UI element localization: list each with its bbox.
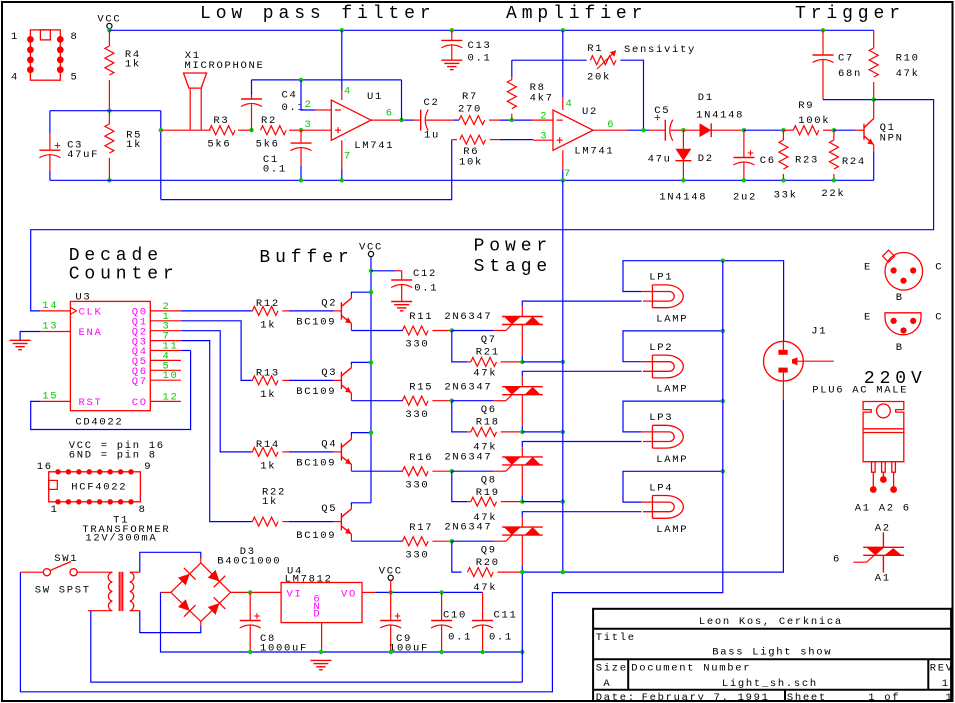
- svg-text:Bass Light show: Bass Light show: [712, 646, 832, 658]
- svg-text:Q3: Q3: [321, 367, 337, 379]
- svg-text:68n: 68n: [838, 68, 862, 80]
- svg-text:1k: 1k: [260, 460, 276, 472]
- wire gate to triac Q6: [452, 400, 494, 402]
- junction regulator gnd on ground row: [319, 650, 323, 654]
- svg-text:2: 2: [540, 111, 548, 123]
- junction R18 triac MT1: [520, 430, 524, 434]
- switch SW1 SPST: [43, 569, 50, 576]
- svg-text:6: 6: [607, 119, 615, 131]
- svg-text:CLK: CLK: [79, 307, 103, 319]
- svg-text:0.1: 0.1: [263, 164, 287, 176]
- wire J1 bottom to mains row: [782, 381, 784, 400]
- wire Q1 to R13: [181, 321, 252, 381]
- junction Q1 collector node: [872, 97, 876, 101]
- svg-text:BC109: BC109: [296, 386, 336, 398]
- connector J1 plug: [764, 341, 804, 381]
- svg-text:C6: C6: [760, 155, 776, 167]
- IC U3 CD4022 box: [70, 301, 150, 410]
- svg-text:C5: C5: [654, 105, 670, 117]
- svg-text:Document Number: Document Number: [631, 663, 751, 675]
- svg-text:U3: U3: [75, 292, 91, 304]
- resistor R4: [108, 30, 110, 46]
- svg-text:220V: 220V: [864, 369, 927, 389]
- resistor R5: [108, 111, 110, 124]
- svg-text:3: 3: [305, 119, 313, 131]
- resistor R23: [782, 130, 784, 140]
- resistor R9: [783, 129, 793, 131]
- svg-text:6: 6: [833, 553, 841, 565]
- capacitor C13: [450, 28, 454, 32]
- wire U2 pin4: [562, 30, 564, 97]
- wire Q4 emitter: [350, 464, 352, 471]
- svg-text:2N6347: 2N6347: [444, 381, 492, 393]
- junction C10 top: [439, 590, 443, 594]
- svg-text:R2: R2: [261, 115, 277, 127]
- junction C5-D1-D2 node: [681, 128, 685, 132]
- junction gate node Q8: [450, 469, 454, 473]
- svg-text:1k: 1k: [260, 319, 276, 331]
- svg-text:Q8: Q8: [481, 474, 497, 486]
- junction VCC column Q3: [369, 360, 373, 364]
- svg-text:Sheet: Sheet: [787, 692, 827, 703]
- svg-text:1: 1: [946, 692, 954, 703]
- junction gnd column R20: [561, 570, 565, 574]
- svg-text:6: 6: [386, 108, 394, 120]
- svg-text:LAMP: LAMP: [656, 524, 688, 536]
- svg-text:U1: U1: [367, 91, 383, 103]
- svg-text:MICROPHONE: MICROPHONE: [185, 60, 265, 72]
- wire U1 pin2 drop: [301, 80, 316, 110]
- svg-text:Power: Power: [474, 237, 553, 257]
- svg-text:C: C: [935, 312, 943, 324]
- svg-text:February 7. 1991: February 7. 1991: [642, 692, 770, 703]
- regulator U4 LM7812: [281, 583, 362, 623]
- junction R9-R24 node: [832, 128, 836, 132]
- svg-text:C10: C10: [443, 610, 467, 622]
- wire Q3 collector to VCC: [350, 364, 352, 367]
- svg-text:330: 330: [405, 549, 429, 561]
- svg-text:Title: Title: [596, 632, 636, 644]
- svg-text:LAMP: LAMP: [656, 454, 688, 466]
- resistor R7: [459, 116, 485, 125]
- DIP8 package outline top-left: [30, 30, 60, 80]
- ground symbol PSU: [310, 660, 331, 669]
- junction R8 bottom on pin2 wire: [510, 118, 514, 122]
- junction gnd column R18: [561, 430, 565, 434]
- resistor R12: [252, 310, 253, 312]
- svg-text:R7: R7: [462, 91, 478, 103]
- svg-text:C13: C13: [468, 40, 492, 52]
- junction U1 pin4 on VCC rail: [340, 28, 344, 32]
- resistor R13: [252, 379, 253, 381]
- svg-text:33k: 33k: [774, 189, 798, 201]
- junction U1 output feedback: [399, 118, 403, 122]
- wire R20 row to gnd column: [522, 571, 563, 573]
- svg-text:12V/300mA: 12V/300mA: [85, 532, 157, 544]
- wire U2 output: [593, 129, 627, 131]
- svg-text:HCF4022: HCF4022: [71, 481, 127, 493]
- triac Q6 2N6347: [502, 387, 543, 395]
- svg-text:CD4022: CD4022: [75, 417, 123, 429]
- svg-text:1N4148: 1N4148: [659, 191, 707, 203]
- triac Q8 2N6347: [502, 457, 543, 465]
- svg-text:LP3: LP3: [649, 412, 673, 424]
- wire R19 row to gnd column: [522, 501, 563, 503]
- svg-text:2N6347: 2N6347: [444, 452, 492, 464]
- junction D1-C6 node: [742, 128, 746, 132]
- svg-text:1N4148: 1N4148: [696, 110, 744, 122]
- ground symbol at ENA: [10, 340, 31, 349]
- wire triac Q6 MT1: [521, 395, 523, 426]
- svg-text:0.1: 0.1: [489, 631, 513, 643]
- wire triac Q9 MT2 to lamp feed: [521, 517, 523, 527]
- lamp LP2: [643, 355, 683, 378]
- wire U1 pin4: [341, 30, 343, 90]
- svg-text:RST: RST: [79, 397, 103, 409]
- wire C6 to R23: [744, 129, 784, 131]
- junction U2 output R1 node: [641, 128, 645, 132]
- wire LP1 top lead loop: [642, 291, 643, 293]
- svg-text:4k7: 4k7: [530, 92, 554, 104]
- svg-text:R19: R19: [476, 487, 500, 499]
- svg-text:B40C1000: B40C1000: [217, 556, 281, 568]
- svg-text:E: E: [864, 312, 872, 324]
- capacitor C10: [441, 592, 443, 620]
- wire gnd column from U2 pin7 to mains row: [562, 180, 564, 572]
- junction C8 on ground row: [248, 650, 252, 654]
- resistor R8: [511, 60, 513, 77]
- svg-text:VO: VO: [341, 589, 357, 601]
- svg-text:R21: R21: [476, 347, 500, 359]
- transistor Q3 BC109: [334, 379, 342, 381]
- svg-text:R16: R16: [409, 452, 433, 464]
- svg-text:330: 330: [405, 479, 429, 491]
- svg-text:22k: 22k: [821, 188, 845, 200]
- wire R9 to Q1 base: [834, 129, 855, 131]
- svg-text:Sensivity: Sensivity: [624, 44, 696, 56]
- wire lamp common column: [20, 261, 722, 692]
- capacitor C5 electrolytic: [649, 129, 665, 131]
- wire bridge minus to ground row: [161, 591, 171, 593]
- junction C6 on ground rail: [742, 178, 746, 182]
- svg-text:330: 330: [405, 339, 429, 351]
- junction ground row mains column: [520, 650, 524, 654]
- junction R4-R5 node: [107, 109, 111, 113]
- resistor R15 gate 330: [402, 396, 428, 405]
- capacitor C6 electrolytic: [743, 130, 745, 157]
- wire triac Q6 MT2 to lamp feed: [521, 376, 523, 386]
- svg-text:100uF: 100uF: [389, 643, 429, 655]
- svg-text:330: 330: [405, 409, 429, 421]
- junction mic input node: [159, 128, 163, 132]
- svg-text:BC109: BC109: [296, 317, 336, 329]
- junction gate node Q7: [450, 328, 454, 332]
- wire gate to triac Q8: [452, 470, 494, 472]
- wire R18 row to gnd column: [522, 431, 563, 433]
- junction C10 on ground row: [439, 650, 443, 654]
- svg-text:B: B: [896, 342, 904, 354]
- capacitor C7: [821, 28, 825, 32]
- svg-text:9: 9: [144, 461, 152, 473]
- svg-text:Counter: Counter: [69, 265, 179, 285]
- resistor R14: [252, 451, 253, 453]
- wire LP2 top lead loop: [642, 361, 643, 363]
- U3 pin RST 15: [40, 400, 70, 402]
- DIP8 pins: [27, 36, 64, 73]
- svg-text:CO: CO: [132, 397, 148, 409]
- svg-text:A1 A2 6: A1 A2 6: [855, 502, 911, 514]
- svg-text:2u2: 2u2: [733, 191, 757, 203]
- svg-text:1k: 1k: [260, 389, 276, 401]
- junction C11 on ground row: [480, 650, 484, 654]
- junction C8 top: [248, 590, 252, 594]
- junction R23-R9 node: [781, 128, 785, 132]
- wire gate to triac Q7: [452, 330, 494, 332]
- wire Q5 emitter: [350, 534, 352, 541]
- junction gnd column R19: [561, 499, 565, 503]
- resistor R22: [252, 521, 253, 523]
- svg-text:16: 16: [37, 461, 53, 473]
- wire Q2 to R14: [181, 331, 252, 452]
- wire U2 pin2 stub: [532, 119, 553, 121]
- transistor Q4 BC109: [334, 451, 342, 453]
- junction U1 pin7 on ground rail: [340, 178, 344, 182]
- wire triac Q8 MT2 to lamp feed: [521, 447, 523, 457]
- title block frame: [593, 609, 951, 701]
- ground symbol at C13: [441, 60, 462, 69]
- capacitor C11: [482, 592, 484, 620]
- svg-text:Q2: Q2: [321, 298, 337, 310]
- resistor R16 gate 330: [402, 467, 428, 476]
- svg-text:Q4: Q4: [321, 439, 337, 451]
- wire Q3 to R22: [181, 341, 252, 522]
- svg-text:R15: R15: [409, 381, 433, 393]
- wire lamp feed to J1 top: [723, 261, 784, 342]
- junction R21 triac MT1: [520, 360, 524, 364]
- junction U2 pin4 on VCC rail: [561, 28, 565, 32]
- capacitor C12: [371, 270, 395, 272]
- svg-text:R14: R14: [256, 439, 280, 451]
- triac Q9 2N6347: [502, 527, 543, 535]
- wire regulator GND pin: [321, 623, 323, 652]
- svg-text:R20: R20: [476, 557, 500, 569]
- svg-text:5: 5: [71, 72, 79, 84]
- svg-text:4: 4: [344, 86, 352, 98]
- wire feedback drop x401: [401, 80, 403, 120]
- wire trigger output to counter clock: [31, 100, 934, 311]
- svg-text:1: 1: [942, 678, 950, 690]
- svg-text:R12: R12: [256, 298, 280, 310]
- svg-text:2: 2: [305, 99, 313, 111]
- capacitor C2: [414, 119, 421, 121]
- wire U1 pin7: [341, 140, 343, 169]
- wire Q3 emitter: [350, 393, 352, 401]
- svg-text:LP2: LP2: [649, 342, 673, 354]
- svg-text:B: B: [896, 292, 904, 304]
- junction C1 on ground rail: [299, 178, 303, 182]
- svg-text:Q5: Q5: [321, 503, 337, 515]
- svg-text:Low pass filter: Low pass filter: [200, 4, 436, 24]
- op-amp U2 LM741: [553, 110, 593, 150]
- svg-text:R9: R9: [798, 100, 814, 112]
- svg-text:Trigger: Trigger: [795, 4, 905, 24]
- svg-text:1: 1: [11, 31, 19, 43]
- svg-text:J1: J1: [811, 326, 827, 338]
- svg-text:C11: C11: [494, 610, 518, 622]
- lamp LP4: [643, 496, 683, 519]
- microphone X1: [184, 73, 207, 88]
- svg-text:Light_sh.sch: Light_sh.sch: [722, 678, 818, 690]
- junction lamp common LP4: [721, 469, 725, 473]
- resistor R6: [452, 139, 457, 141]
- wire VCC rail: [109, 29, 873, 31]
- wire secondary bottom to bridge: [130, 610, 140, 612]
- junction VCC rail at R4: [107, 28, 111, 32]
- junction R23 on ground rail: [781, 178, 785, 182]
- svg-text:0.1: 0.1: [468, 53, 492, 65]
- svg-text:VI: VI: [287, 589, 303, 601]
- svg-text:1u: 1u: [424, 130, 440, 142]
- svg-text:ENA: ENA: [79, 327, 103, 339]
- svg-text:2N6347: 2N6347: [444, 522, 492, 534]
- svg-text:BC109: BC109: [296, 458, 336, 470]
- svg-text:2N6347: 2N6347: [444, 311, 492, 323]
- wire R2 to U1 pin3: [301, 129, 331, 131]
- svg-text:1k: 1k: [126, 139, 142, 151]
- transformer T1: [108, 572, 134, 611]
- potentiometer R1 Sensivity: [590, 56, 616, 65]
- svg-text:0.1: 0.1: [282, 102, 306, 114]
- svg-text:BC109: BC109: [296, 530, 336, 542]
- wire C7 to collector node: [823, 99, 874, 101]
- wire ground rail top section: [50, 179, 874, 181]
- junction VCC node C9: [389, 590, 393, 594]
- resistor R19: [452, 471, 467, 501]
- svg-text:14: 14: [42, 300, 58, 312]
- svg-text:R13: R13: [256, 368, 280, 380]
- svg-text:Q7: Q7: [481, 334, 497, 346]
- svg-text:10: 10: [163, 370, 179, 382]
- triac symbol A1 A2 G: [863, 532, 904, 572]
- svg-text:8: 8: [71, 31, 79, 43]
- resistor R17 gate 330: [402, 537, 428, 546]
- wire gate to triac Q9: [452, 540, 494, 542]
- wire Q2 emitter: [350, 323, 352, 330]
- svg-text:0.1: 0.1: [414, 283, 438, 295]
- wire Q4 to RST loop: [181, 350, 191, 352]
- junction R19 triac MT1: [520, 499, 524, 503]
- svg-text:C4: C4: [282, 90, 298, 102]
- wire RST loop to Q4: [31, 351, 191, 430]
- capacitor C8 electrolytic: [249, 592, 251, 620]
- svg-text:R24: R24: [842, 156, 866, 168]
- capacitor C9 electrolytic: [390, 592, 392, 620]
- ground symbol at C12: [391, 302, 412, 311]
- svg-text:Q7: Q7: [132, 376, 148, 388]
- junction R20 triac MT1: [520, 570, 524, 574]
- svg-text:12: 12: [163, 391, 179, 403]
- svg-text:NPN: NPN: [880, 133, 904, 145]
- svg-text:Date:: Date:: [596, 692, 636, 703]
- wire Q5 collector to VCC: [350, 506, 352, 509]
- svg-text:1k: 1k: [262, 496, 278, 508]
- junction gate node Q6: [450, 399, 454, 403]
- svg-text:5k6: 5k6: [256, 138, 280, 150]
- svg-text:E: E: [864, 262, 872, 274]
- svg-text:R1: R1: [587, 43, 603, 55]
- TO-18 transistor package EBC: [885, 252, 923, 290]
- svg-text:C: C: [935, 262, 943, 274]
- op-amp U1 LM741: [331, 100, 371, 140]
- wire R21 row to gnd column: [522, 361, 563, 363]
- junction U1 pin3 node: [299, 128, 303, 132]
- wire ENA to ground: [20, 332, 40, 341]
- wire triac Q9 MT1: [521, 535, 523, 566]
- wire Q2 collector to VCC: [350, 295, 352, 298]
- svg-text:D: D: [313, 609, 321, 621]
- svg-text:D1: D1: [698, 92, 714, 104]
- svg-text:100k: 100k: [798, 115, 830, 127]
- svg-text:LAMP: LAMP: [656, 314, 688, 326]
- svg-text:13: 13: [42, 321, 58, 333]
- triac Q7 2N6347: [502, 317, 543, 325]
- svg-text:1: 1: [51, 504, 59, 516]
- junction C12 tap: [369, 269, 373, 273]
- svg-text:47k: 47k: [896, 68, 920, 80]
- svg-text:Stage: Stage: [474, 257, 553, 277]
- svg-text:C2: C2: [424, 97, 440, 109]
- svg-text:SW1: SW1: [54, 553, 78, 565]
- bridge rectifier D3 B40C1000: [171, 563, 231, 622]
- svg-text:15: 15: [42, 390, 58, 402]
- wire R1 right to output node: [620, 60, 643, 130]
- resistor R21: [452, 331, 467, 362]
- diode D1 1N4148: [683, 129, 699, 131]
- wire primary bottom loop: [88, 610, 112, 612]
- resistor R2: [261, 126, 287, 135]
- junction D2 on ground rail: [681, 178, 685, 182]
- svg-text:R23: R23: [795, 154, 819, 166]
- svg-text:LM7812: LM7812: [285, 573, 333, 585]
- wire bridge plus to regulator: [231, 591, 282, 593]
- lamp LP3: [643, 425, 683, 448]
- wire mic to R3: [161, 129, 211, 131]
- junction R5 bottom on ground rail: [107, 178, 111, 182]
- svg-text:1k: 1k: [125, 59, 141, 71]
- TO-220 package drawing: [863, 402, 904, 488]
- svg-text:8: 8: [139, 504, 147, 516]
- svg-text:47u: 47u: [648, 154, 672, 166]
- U3 pin CLK 14: [40, 310, 70, 312]
- svg-text:Size: Size: [596, 663, 628, 675]
- svg-text:47k: 47k: [473, 368, 497, 380]
- junction VCC column Q2: [369, 290, 373, 294]
- wire R8 top to R1: [512, 59, 587, 61]
- svg-text:20k: 20k: [587, 72, 611, 84]
- wire Q4 collector to VCC: [350, 436, 352, 439]
- wire U1 output: [371, 119, 399, 121]
- U3 pin ENA 13: [40, 331, 70, 333]
- transistor Q2 BC109: [334, 310, 342, 312]
- transistor Q5 BC109: [334, 521, 342, 523]
- junction U2 pin7 on ground rail: [561, 178, 565, 182]
- svg-text:R3: R3: [213, 115, 229, 127]
- wire U2 pin3 stub: [533, 139, 553, 141]
- resistor R10: [873, 30, 875, 48]
- resistor R3: [209, 126, 235, 135]
- svg-text:LP1: LP1: [649, 272, 673, 284]
- wire secondary top to bridge: [130, 571, 140, 573]
